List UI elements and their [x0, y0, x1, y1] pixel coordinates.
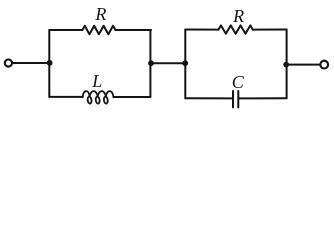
wire box1 top right segment: [115, 29, 151, 31]
capacitor C1 right plate: [237, 91, 239, 107]
resistor R1: [82, 26, 115, 34]
node C junction dot: [182, 60, 188, 66]
resistor R2: [219, 25, 253, 33]
wire box2 right vertical: [286, 30, 288, 99]
wire box1 top left segment: [49, 29, 82, 31]
svg-text:R: R: [94, 4, 106, 24]
wire box1 right vertical: [149, 30, 151, 97]
wire box2 bottom right segment: [239, 97, 286, 99]
wire box2 top right segment: [253, 29, 287, 31]
svg-text:L: L: [91, 71, 102, 91]
wire middle connecting segment: [150, 62, 185, 64]
wire box1 left vertical: [48, 30, 50, 97]
node A junction dot: [47, 60, 53, 66]
wire box1 bottom left segment: [49, 96, 82, 98]
left terminal: [5, 59, 12, 66]
wire box2 top left segment: [185, 29, 218, 31]
svg-text:C: C: [232, 72, 245, 92]
wire box2 bottom left segment: [185, 97, 232, 99]
svg-text:R: R: [232, 6, 244, 26]
wire box2 left vertical: [184, 30, 186, 99]
wire node D to right terminal: [287, 64, 321, 66]
right terminal: [320, 61, 328, 69]
inductor L1: [83, 91, 114, 104]
wire box1 bottom right segment: [114, 96, 151, 98]
node B junction dot: [148, 60, 154, 66]
node D junction dot: [283, 62, 289, 68]
wire left terminal to node A: [12, 62, 49, 64]
capacitor C1 left plate: [232, 91, 234, 107]
